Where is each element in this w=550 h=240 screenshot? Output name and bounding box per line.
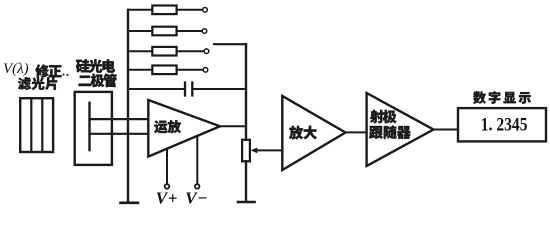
- switch wiper: range selector arm: [214, 43, 246, 45]
- wire: R4 to contact: [177, 69, 203, 71]
- switch contact S1-4: [203, 68, 208, 73]
- label "放大": [289, 126, 317, 140]
- wire: R2 to contact: [177, 30, 202, 32]
- wire: R1 to contact: [177, 9, 202, 11]
- svg-text:1. 2345: 1. 2345: [481, 114, 528, 135]
- wire: right feedback bus (upper): [245, 44, 247, 140]
- wire: capacitor C1 to right bus: [193, 88, 246, 90]
- wire: bus to R4: [128, 69, 152, 71]
- wire: R3 to contact: [177, 50, 204, 52]
- wire: photodiode terminals to op-amp inputs: [90, 119, 149, 134]
- wire: op-amp output to bus: [220, 125, 246, 127]
- label "V+": [156, 189, 178, 208]
- filter F1: V(λ) correction filter: [20, 98, 53, 152]
- svg-text:V−: V−: [185, 189, 208, 208]
- label "硅光电": [76, 59, 115, 72]
- wire: V+ supply stem: [166, 149, 168, 184]
- label "数字显示": [473, 91, 531, 104]
- label "跟随器": [369, 125, 411, 138]
- wire: bus to R2: [128, 30, 152, 32]
- svg-text:V(λ): V(λ): [3, 61, 29, 77]
- amplifier U2: [282, 96, 345, 170]
- value "1.2345": [481, 114, 528, 135]
- potentiometer RP1 body: [242, 140, 250, 162]
- switch contact S1-3: [204, 49, 209, 54]
- ground (left bus): [121, 202, 139, 205]
- label "修正": [35, 64, 61, 77]
- label "滤光片": [18, 77, 57, 90]
- label "二极管": [79, 74, 117, 87]
- wire: amplifier output to follower: [346, 131, 367, 133]
- terminal: V+: [165, 184, 170, 189]
- leader dots after 修正: [62, 73, 68, 76]
- wire: left bus (feedback / ground rail): [127, 10, 129, 202]
- wire: bus to R1: [128, 9, 152, 11]
- ground (right bus): [238, 201, 255, 204]
- wire: feedback to capacitor C1: [128, 88, 184, 90]
- resistor R4 (range resistor): [152, 66, 176, 75]
- emitter follower U3: [367, 93, 434, 166]
- capacitor C1 (feedback): [185, 83, 192, 96]
- resistor R3 (range resistor): [152, 47, 176, 56]
- photodiode D1: silicon photodiode housing: [75, 92, 112, 165]
- label "V−": [185, 189, 208, 208]
- svg-text:V+: V+: [156, 189, 178, 208]
- photodiode D1 electrode bar: [88, 103, 90, 150]
- display DS1: digital display: [458, 108, 546, 141]
- resistor R1 (range resistor): [152, 6, 176, 15]
- switch contact S1-1: [203, 8, 208, 13]
- switch contact S1-2: [202, 29, 207, 34]
- wire: bus to R3: [128, 50, 152, 52]
- potentiometer RP1 wiper arrow: [251, 148, 283, 154]
- wire: follower output to display: [434, 129, 459, 131]
- wire: bus below potentiometer: [245, 161, 247, 201]
- terminal: V−: [195, 184, 200, 189]
- wire: V− supply stem: [196, 136, 198, 184]
- resistor R2 (range resistor): [152, 27, 176, 36]
- op-amp U1: [148, 100, 220, 157]
- label "射极": [370, 110, 396, 123]
- label "运放": [154, 120, 181, 133]
- label "V(λ)": [3, 61, 29, 77]
